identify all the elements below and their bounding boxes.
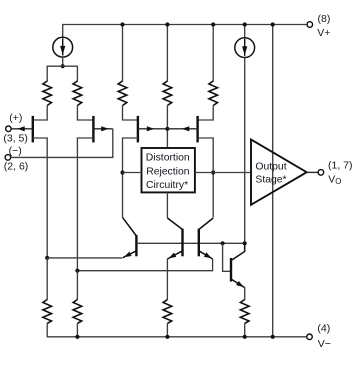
wire I1 to node A1 — [62, 57, 64, 66]
wire R3 to Q3 collector — [123, 106, 138, 121]
node Q3 emitter / box left junction — [120, 170, 124, 174]
wire V+ top rail — [63, 24, 307, 26]
svg-text:(8): (8) — [318, 13, 331, 25]
node Q1 emitter to Q5 emitter junction — [45, 256, 49, 260]
node rail R5 junction — [165, 22, 169, 26]
node rail R7 junction — [75, 335, 79, 339]
wire R1 to Q1 collector — [34, 106, 47, 121]
node A1 junction — [61, 64, 65, 68]
wire long base rail of Q5 Q6 Q7 — [137, 242, 245, 244]
node rail R4 junction — [211, 22, 215, 26]
wire R4 to Q4 collector — [199, 106, 214, 121]
transistor Q7 — [199, 218, 213, 259]
wire Q3 emitter down — [123, 138, 138, 217]
node rail column E junction — [271, 335, 275, 339]
svg-text:Rejection: Rejection — [146, 166, 190, 177]
wire R3 column from rail — [122, 25, 124, 82]
wire left current source drop — [62, 24, 64, 37]
wire Q8 emitter down to R9 — [244, 287, 246, 300]
resistor R9 — [240, 300, 249, 324]
node base rail to Q8 base junction — [221, 241, 225, 245]
svg-text:(4): (4) — [317, 323, 330, 335]
terminal IN- pins (2,6) — [5, 155, 11, 161]
wire column E rail to bottom rail — [272, 25, 274, 337]
wire box right to output stage — [195, 172, 251, 174]
svg-text:V−: V− — [318, 338, 331, 350]
wire R9 bottom — [244, 323, 246, 336]
transistor Q6 — [167, 218, 182, 259]
wire R7 bottom — [76, 323, 78, 336]
node rail R3 junction — [120, 22, 124, 26]
node Q2 emitter junction — [75, 269, 79, 273]
resistor R2 — [73, 81, 82, 106]
op-amp output stage A1 — [251, 140, 307, 205]
svg-text:(−): (−) — [9, 145, 22, 157]
resistor R8 — [163, 300, 172, 324]
current source I2 — [235, 38, 255, 58]
svg-text:VO: VO — [328, 174, 341, 187]
wire R5 column from rail — [166, 25, 168, 82]
transistor Q5 — [123, 217, 137, 257]
transistor Q1 — [11, 116, 33, 142]
wire R2 to Q2 collector — [77, 106, 92, 121]
resistor R6 — [43, 300, 52, 324]
wire Q2 emitter down — [77, 138, 93, 271]
terminal V- pin (4) — [307, 334, 313, 340]
wire Q2 base to IN- line — [11, 129, 113, 158]
wire Q8 base L — [223, 243, 230, 271]
current source I1 — [53, 37, 73, 57]
svg-text:(+): (+) — [9, 112, 22, 124]
distortion rejection circuitry box U1 — [142, 148, 195, 192]
wire node A1 horizontal — [47, 66, 77, 81]
svg-text:(2, 6): (2, 6) — [4, 160, 29, 172]
wire R5 to node B — [166, 106, 168, 149]
transistor Q8 — [231, 243, 245, 287]
svg-text:(1, 7): (1, 7) — [328, 159, 353, 171]
resistor R3 — [118, 81, 127, 106]
wire box left to column A — [123, 172, 142, 174]
node I2 column to Q8 collector junction — [243, 241, 247, 245]
terminal VOUT pins (1,7) — [318, 170, 324, 176]
svg-text:Stage*: Stage* — [255, 174, 286, 185]
node rail R8 junction — [165, 335, 169, 339]
terminal V+ pin (8) — [307, 22, 313, 28]
transistor Q4 — [167, 116, 197, 142]
wire output stage to terminal — [307, 171, 318, 173]
svg-text:Output: Output — [255, 161, 286, 172]
wire Q5 emitter horizontal — [47, 257, 122, 259]
wire column A dot to R6 — [46, 258, 48, 300]
wire right current source drop — [244, 24, 246, 38]
svg-text:(3, 5): (3, 5) — [3, 133, 28, 145]
svg-text:Distortion: Distortion — [146, 152, 190, 163]
wire Q4 emitter down — [198, 138, 214, 217]
node rail R9 junction — [243, 335, 247, 339]
node rail E junction — [271, 22, 275, 26]
terminal IN+ pins (3,5) — [6, 126, 12, 132]
wire R7 top — [76, 271, 78, 300]
svg-text:Circuitry*: Circuitry* — [146, 180, 188, 191]
resistor R7 — [73, 300, 82, 324]
transistor Q2 — [93, 116, 112, 142]
wire Q1 emitter down — [33, 138, 47, 258]
node Q4 emitter / output line junction — [211, 170, 215, 174]
wire R8 bottom — [166, 323, 168, 336]
resistor R1 — [43, 81, 52, 106]
wire Q6 emitter down to R8 — [166, 259, 168, 300]
svg-text:V+: V+ — [317, 27, 330, 39]
resistor R4 — [209, 81, 218, 106]
wire box bottom to Q6 collector — [166, 192, 168, 218]
node B base junction — [165, 127, 169, 131]
node rail I2 junction — [243, 22, 247, 26]
wire Q7 emitter to Q2 emitter line — [77, 259, 212, 271]
resistor R5 — [163, 81, 172, 106]
transistor Q3 — [138, 116, 168, 142]
wire R4 column from rail — [212, 25, 214, 82]
wire V- bottom rail — [47, 323, 307, 336]
wire I2 down to node D — [244, 58, 246, 244]
